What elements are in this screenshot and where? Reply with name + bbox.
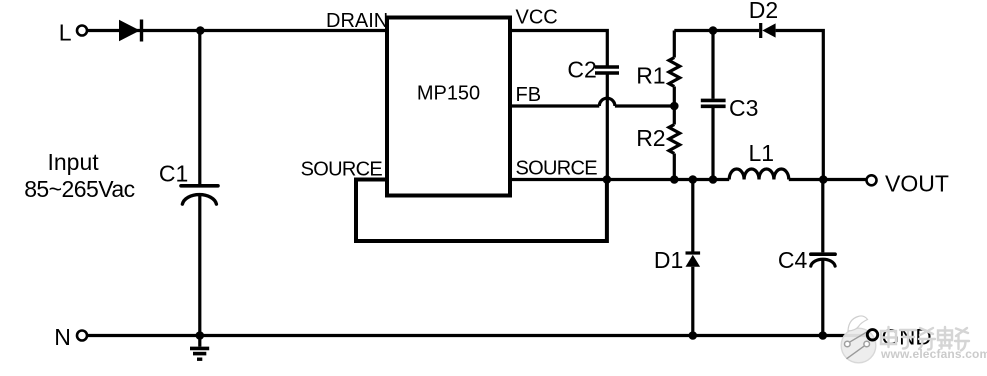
junction C1 bottom — [196, 331, 205, 340]
wire R2 bottom lead — [673, 154, 676, 180]
inductor L1 — [729, 169, 789, 180]
wire R1 bottom lead — [673, 87, 676, 107]
wire L terminal to DRAIN pin — [88, 29, 387, 32]
svg-text:C2: C2 — [567, 56, 596, 82]
wire SOURCE left pin loop under IC — [356, 180, 607, 242]
junction C4 bottom — [819, 331, 828, 340]
svg-text:N: N — [54, 324, 71, 350]
wire C3 top lead — [711, 31, 714, 99]
watermark elecfans logo disc — [841, 316, 876, 363]
wire C4 top lead — [821, 180, 824, 253]
svg-text:DRAIN: DRAIN — [326, 10, 388, 32]
ground symbol — [190, 336, 209, 360]
svg-text:R2: R2 — [636, 125, 665, 151]
wire R1 top lead — [673, 31, 676, 58]
svg-text:C3: C3 — [729, 95, 758, 121]
diode input rectifier — [119, 20, 142, 42]
svg-text:SOURCE: SOURCE — [516, 158, 598, 180]
wire C1 to bottom rail — [198, 194, 201, 336]
wire top rail R1 to D2 — [674, 29, 759, 32]
junction D1 bottom — [689, 331, 698, 340]
svg-text:www.elecfans.com: www.elecfans.com — [880, 347, 987, 361]
svg-text:SOURCE: SOURCE — [301, 159, 383, 181]
wire VCC pin to C2 — [510, 31, 607, 67]
wire C3 bottom lead — [711, 108, 714, 180]
terminal N — [77, 331, 87, 341]
capacitor C3 — [701, 100, 726, 106]
svg-text:Input: Input — [48, 149, 100, 175]
wire hop over C2 line — [599, 98, 615, 106]
svg-text:VCC: VCC — [516, 7, 558, 29]
junction R2 bottom — [670, 175, 679, 184]
wire FB pin — [510, 104, 599, 107]
svg-text:VOUT: VOUT — [885, 170, 949, 196]
svg-text:R1: R1 — [636, 62, 665, 88]
wire L1 to VOUT node — [789, 178, 866, 181]
IC U1 MP150 — [387, 18, 510, 196]
capacitor C1 — [181, 186, 218, 204]
junction C3 bottom — [709, 175, 718, 184]
diode D2 — [761, 23, 776, 38]
svg-text:D1: D1 — [654, 247, 683, 273]
wire C2 to source node — [606, 75, 609, 180]
svg-text:C4: C4 — [778, 247, 808, 273]
diode D1 — [686, 253, 701, 267]
terminal L — [77, 26, 87, 36]
wire D1 bottom lead — [691, 267, 694, 336]
svg-text:C1: C1 — [159, 160, 188, 186]
terminal VOUT — [867, 175, 877, 185]
svg-text:FB: FB — [516, 84, 542, 106]
wire SOURCE rail — [510, 178, 729, 181]
svg-text:L: L — [59, 19, 72, 45]
wire bottom rail — [88, 334, 869, 337]
wire C1 branch down — [198, 31, 201, 185]
junction FB node — [670, 102, 679, 111]
resistor R1 — [669, 58, 680, 87]
junction C3 top — [709, 26, 718, 35]
watermark chinese characters — [881, 327, 969, 351]
wire FB to divider junction — [615, 104, 674, 107]
resistor R2 — [669, 125, 680, 154]
wire R2 top lead — [673, 106, 676, 125]
svg-text:85~265Vac: 85~265Vac — [24, 176, 134, 202]
wire D1 top lead — [691, 180, 694, 252]
junction rectified input node — [196, 26, 205, 35]
junction VOUT node — [819, 175, 828, 184]
capacitor C2 — [595, 67, 619, 73]
junction D1 top — [689, 175, 698, 184]
junction source/C2 node — [603, 175, 612, 184]
svg-text:MP150: MP150 — [417, 83, 480, 105]
wire D2 to output branch corner — [776, 31, 824, 180]
terminal GND — [867, 330, 877, 340]
svg-text:D2: D2 — [749, 0, 778, 23]
wire C4 bottom lead — [821, 259, 824, 336]
capacitor C4 — [811, 254, 835, 266]
svg-text:L1: L1 — [749, 140, 775, 166]
